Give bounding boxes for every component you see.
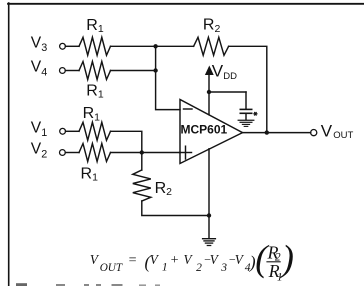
wire R2 gain top stub (141, 153, 143, 171)
wire VDD supply line (208, 74, 210, 115)
wire V1 row to junction (111, 131, 142, 152)
node V2 input terminal (60, 150, 66, 156)
svg-text:V: V (235, 252, 245, 267)
junction node ground (207, 213, 211, 217)
border frame left (8, 3, 10, 286)
wire VDD to bypass capacitor (209, 91, 246, 93)
ground (main) (203, 238, 216, 240)
wire inverting bus vertical (156, 46, 180, 109)
svg-text:V2: V2 (31, 141, 47, 161)
node V3 input terminal (60, 43, 66, 49)
svg-text:R1: R1 (86, 82, 104, 100)
VDD arrow head (205, 66, 214, 76)
wire V3 terminal to R1 (65, 45, 79, 47)
svg-text:3: 3 (220, 262, 227, 274)
svg-text:V: V (90, 252, 100, 267)
border frame top (8, 3, 364, 5)
svg-text:V4: V4 (31, 59, 47, 79)
ground (bypass capacitor) (238, 119, 254, 121)
svg-text:MCP601: MCP601 (181, 123, 228, 137)
svg-text:V: V (212, 62, 224, 81)
wire V1 terminal to R1 (66, 130, 80, 132)
svg-text:R2: R2 (203, 17, 221, 35)
svg-text:DD: DD (223, 71, 237, 82)
resistor R1 (V2 input) (79, 144, 111, 162)
wire V2 terminal to R1 (65, 152, 79, 154)
svg-text:V: V (210, 252, 220, 267)
svg-text:2: 2 (196, 262, 202, 274)
junction node V3/R2 (153, 44, 157, 48)
cut-off caption text at bottom (16, 283, 160, 286)
svg-text:R2: R2 (155, 180, 173, 198)
capacitor C1 bypass (245, 92, 247, 109)
svg-text:R1: R1 (83, 105, 101, 123)
svg-text:=: = (128, 253, 137, 268)
node V1 input terminal (60, 128, 66, 134)
svg-text:R1: R1 (81, 165, 99, 183)
resistor R2 (gain, to ground) (133, 170, 151, 201)
junction node output/feedback (265, 130, 269, 134)
wire V2 row to op-amp + input (111, 152, 181, 154)
svg-text:V: V (321, 122, 333, 141)
junction node VDD/cap (207, 90, 211, 94)
resistor R1 (V3 input) (79, 37, 111, 55)
wire V4 terminal to R1 (65, 70, 79, 72)
op-amp minus input marking (184, 108, 193, 110)
op-amp plus input marking (180, 152, 192, 154)
wire feedback to output node (229, 46, 267, 132)
svg-text:+: + (170, 253, 179, 268)
wire V4 row to bus (111, 70, 156, 72)
svg-text:V: V (184, 252, 194, 267)
node V4 input terminal (60, 68, 66, 74)
svg-text:V3: V3 (31, 34, 47, 54)
resistor R1 (V4 input) (79, 62, 111, 80)
junction node V1/V2 (140, 150, 144, 154)
svg-text:V1: V1 (31, 119, 47, 139)
svg-text:R1: R1 (86, 17, 104, 35)
node VOUT output terminal (311, 130, 317, 136)
svg-text:1: 1 (277, 271, 283, 283)
wire R2 bottom to ground node (142, 201, 209, 216)
resistor R1 (V1 input) (79, 122, 111, 140)
svg-text:OUT: OUT (100, 262, 123, 274)
formula VOUT = (V1 + V2 - V3 - V4)(R2/R1) (90, 238, 294, 284)
resistor R2 (feedback) (194, 37, 229, 55)
wire op-amp VSS to ground (208, 149, 210, 239)
svg-text:V: V (150, 252, 160, 267)
op-amp U1 MCP601 triangle (180, 100, 243, 164)
wire op-amp output to VOUT (243, 132, 311, 134)
wire V3 row to summing bus and R2 (111, 45, 194, 47)
asterisk bypass cap note (253, 112, 257, 116)
svg-text:1: 1 (162, 262, 168, 274)
svg-text:OUT: OUT (333, 130, 353, 141)
junction node V4/bus (153, 68, 157, 72)
